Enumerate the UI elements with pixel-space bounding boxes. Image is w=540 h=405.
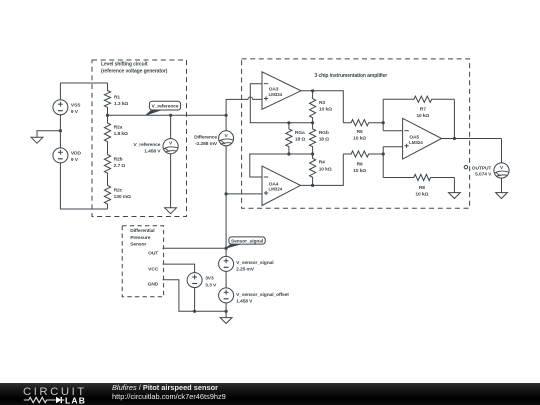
- wire VSS to VDD: [59, 115, 61, 148]
- junction between VSS and VDD: [59, 129, 62, 132]
- svg-text:10 kΩ: 10 kΩ: [353, 136, 366, 142]
- svg-text:OUT: OUT: [148, 250, 158, 256]
- wire between sources: [225, 271, 227, 288]
- resistor R8 10 k: [383, 174, 454, 197]
- svg-text:R8: R8: [419, 185, 425, 191]
- svg-text:Level shifting circuit: Level shifting circuit: [101, 62, 148, 68]
- svg-text:R7: R7: [420, 107, 426, 113]
- svg-text:GND: GND: [148, 282, 159, 288]
- voltmeter Difference -2.288 mV: [194, 131, 234, 147]
- wire OA4 minus feedback rail: [250, 154, 313, 177]
- wire voltmeter to ground: [170, 154, 172, 208]
- svg-text:3 chip instrumentation amplifi: 3 chip instrumentation amplifier: [314, 73, 387, 79]
- junction RGa top: [287, 121, 290, 124]
- junction OA5 output: [453, 137, 456, 140]
- svg-text:Differential: Differential: [130, 228, 155, 234]
- svg-text:1.3 kΩ: 1.3 kΩ: [114, 101, 128, 107]
- junction Sensor_signal node: [225, 247, 228, 250]
- svg-text:Sensor: Sensor: [130, 242, 146, 248]
- resistor R3 10 k: [310, 91, 333, 123]
- svg-text:Difference: Difference: [194, 134, 217, 140]
- wire R8 to ground: [453, 178, 455, 193]
- resistor R2a 1.8 k: [104, 115, 128, 148]
- svg-text:R2a: R2a: [114, 125, 123, 131]
- wire VDD bottom to chain bottom: [60, 163, 107, 209]
- junction ground rail: [225, 310, 228, 313]
- power supply VSS 9 V: [53, 100, 81, 115]
- op-amp OA3 LM324: [262, 72, 301, 110]
- voltage source V_sensor_signal 2.25 mV: [219, 256, 275, 272]
- svg-text:(reference voltage generator): (reference voltage generator): [101, 69, 168, 75]
- pin VCC: [148, 264, 194, 273]
- junction R6 right: [382, 152, 385, 155]
- ground (sensor): [220, 318, 232, 324]
- power supply VDD 9 V: [53, 148, 82, 163]
- svg-text:RGa: RGa: [295, 130, 305, 136]
- svg-text:1.8 kΩ: 1.8 kΩ: [114, 131, 128, 137]
- svg-text:OUTPUT: OUTPUT: [472, 165, 492, 171]
- svg-text:R2c: R2c: [114, 187, 123, 193]
- wire OA5 output: [442, 138, 502, 140]
- junction R3 bottom / RGb top: [311, 121, 314, 124]
- svg-text:R6: R6: [357, 162, 363, 168]
- svg-text:10 kΩ: 10 kΩ: [415, 192, 428, 198]
- svg-text:LM324: LM324: [269, 92, 283, 97]
- svg-text:R4: R4: [319, 160, 325, 166]
- wire OA5 minus branch: [382, 99, 384, 130]
- svg-text:3V3: 3V3: [205, 276, 214, 282]
- resistor R2b 2.7: [104, 148, 125, 179]
- svg-text:V_sensor_signal: V_sensor_signal: [236, 260, 274, 266]
- svg-text:1.458 V: 1.458 V: [236, 299, 253, 305]
- svg-text:18 Ω: 18 Ω: [319, 137, 329, 143]
- svg-text:R3: R3: [319, 100, 325, 106]
- svg-text:10 kΩ: 10 kΩ: [416, 113, 429, 119]
- wire V_reference rail: [108, 114, 227, 116]
- wire Difference meter down: [225, 146, 227, 194]
- sensor box title: [130, 228, 155, 248]
- svg-text:LM324: LM324: [269, 187, 283, 192]
- svg-text:2.25 mV: 2.25 mV: [236, 267, 255, 273]
- svg-text:5.074 V: 5.074 V: [475, 172, 492, 178]
- svg-text:LM324: LM324: [409, 140, 423, 145]
- ground (output meter): [496, 193, 508, 199]
- svg-text:3.3 V: 3.3 V: [205, 282, 217, 288]
- ground (R8): [449, 193, 461, 199]
- svg-text:V_reference: V_reference: [133, 142, 160, 148]
- wire to ground: [37, 131, 60, 138]
- resistor R7 10 k feedback: [383, 96, 454, 119]
- svg-text:R5: R5: [357, 129, 363, 135]
- svg-text:RGb: RGb: [319, 130, 329, 136]
- pin GND: [148, 280, 226, 312]
- footer bar: [0, 383, 540, 405]
- wire to OA3 plus input with hop: [226, 97, 262, 115]
- svg-text:10 kΩ: 10 kΩ: [319, 107, 332, 113]
- resistor R5 10 k: [343, 120, 383, 142]
- svg-text:1.458 V: 1.458 V: [144, 149, 161, 155]
- svg-text:LAB: LAB: [65, 395, 86, 405]
- junction R5 right: [382, 121, 385, 124]
- svg-text:10 kΩ: 10 kΩ: [319, 166, 332, 172]
- node Sensor_signal flag: [226, 244, 240, 248]
- svg-text:V_reference: V_reference: [152, 104, 179, 110]
- region: Differential Pressure Sensor (dashed): [122, 226, 163, 297]
- wire OA4 plus input: [226, 193, 262, 195]
- op-amp OA4 LM324: [262, 166, 301, 205]
- wire down to Sensor_signal node: [225, 194, 227, 248]
- junction at OA4 plus input tap: [225, 192, 228, 195]
- resistor R6 10 k: [343, 151, 383, 174]
- CircuitLab logo: [0, 383, 110, 405]
- wire to OUTPUT voltmeter: [501, 139, 503, 164]
- ground (under V_reference meter): [165, 208, 177, 214]
- wire OUTPUT meter to ground: [501, 178, 503, 193]
- region: 3 chip instrumentation amplifier (dashed): [242, 59, 470, 208]
- junction V_reference node: [106, 114, 109, 117]
- wire down to Difference meter: [225, 115, 227, 131]
- junction RGb bottom / R4 top: [311, 152, 314, 155]
- junction at rail end: [225, 114, 228, 117]
- svg-text:2.7 Ω: 2.7 Ω: [114, 163, 126, 169]
- svg-text:10 kΩ: 10 kΩ: [353, 168, 366, 174]
- junction 3V3 bottom: [193, 310, 196, 313]
- wire to V_sensor_signal: [225, 248, 227, 256]
- region: Level shifting circuit (dashed): [92, 60, 187, 217]
- wire from VSS top to resistor chain: [60, 82, 107, 84]
- svg-text:V_sensor_signal_offset: V_sensor_signal_offset: [236, 292, 289, 298]
- svg-text:VSS: VSS: [71, 102, 81, 108]
- resistor RGa 18: [286, 123, 306, 154]
- wire offset source to ground: [225, 303, 227, 318]
- resistor R2c 130 m: [104, 180, 131, 210]
- junction R4 bottom: [311, 184, 314, 187]
- wire 3V3 to ground rail: [194, 288, 196, 312]
- svg-text:130 mΩ: 130 mΩ: [114, 194, 131, 200]
- svg-text:VCC: VCC: [148, 267, 159, 273]
- wire VSS stub top: [59, 83, 61, 100]
- svg-text:9 V: 9 V: [71, 109, 79, 115]
- junction R3 top: [311, 89, 314, 92]
- op-amp OA5 LM324: [403, 118, 442, 159]
- junction RGa bottom: [287, 152, 290, 155]
- footer text: [112, 383, 226, 403]
- voltmeter V_reference 1.458 V: [133, 139, 178, 155]
- svg-text:Sensor_signal: Sensor_signal: [231, 238, 264, 244]
- svg-text:Pressure: Pressure: [130, 235, 151, 241]
- wire OA5 minus input: [383, 130, 402, 132]
- pin OUT: [148, 248, 226, 256]
- resistor RGb 18: [310, 123, 330, 154]
- wire R7 to output: [453, 99, 455, 138]
- voltage source V_sensor_signal_offset 1.458 V: [219, 288, 290, 305]
- svg-text:VDD: VDD: [71, 150, 82, 156]
- output flag OUTPUT 5.074 V: [464, 165, 492, 177]
- wire OA3 minus feedback: [250, 84, 312, 123]
- svg-text:R2b: R2b: [114, 156, 123, 162]
- wire OA3 output to R5: [301, 91, 343, 123]
- node V_reference flag: [146, 110, 160, 115]
- box title: [101, 62, 168, 75]
- voltmeter OUTPUT 5.074 V: [494, 163, 509, 178]
- svg-text:9 V: 9 V: [71, 157, 79, 163]
- svg-text:18 Ω: 18 Ω: [295, 137, 305, 143]
- wire down to voltmeter: [170, 115, 172, 138]
- wire OA4 output to R6: [301, 154, 344, 185]
- svg-text:-2.288 mV: -2.288 mV: [195, 141, 218, 147]
- svg-text:R1: R1: [114, 94, 120, 100]
- ground (left rail): [31, 137, 43, 143]
- resistor R1 1.3 k: [104, 83, 128, 115]
- junction at voltmeter tap: [169, 114, 172, 117]
- wire OA5 plus branch: [382, 147, 384, 178]
- wire OA5 plus input: [383, 146, 402, 148]
- resistor R4 10 k: [310, 154, 332, 185]
- voltage source 3V3 3.3 V: [187, 273, 217, 289]
